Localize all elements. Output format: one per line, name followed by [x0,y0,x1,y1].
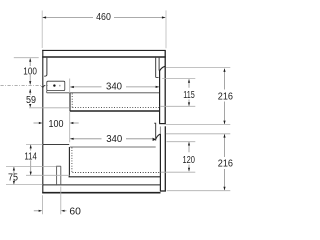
plumbing step cap [56,165,61,167]
drawer2 box bottom hidden (dotted) [73,172,161,174]
drawer1 box back wall hidden (dotted) [71,94,73,108]
dim 216 second [224,134,226,157]
bracket tick [59,85,61,87]
right ext line y190.7 [167,190,231,192]
svg-text:340: 340 [106,82,122,93]
dim 340 first [70,86,101,88]
svg-text:100: 100 [23,67,37,78]
right ext line y171.9 [161,171,196,173]
dim 114 vertical [30,145,32,151]
drawer2 box top line [70,146,156,148]
svg-text:115: 115 [183,90,195,101]
plumbing step vertical left [56,166,58,185]
ext line 60 left [41,195,43,214]
drawer1 box bottom hidden (dotted) [73,106,160,108]
drawer2 front bottom cap [160,190,166,192]
cabinet top panel top edge [42,49,166,51]
dim 120 [188,142,190,152]
drawer1 box back wall [69,93,71,111]
dim 100 horizontal (second) [34,122,39,124]
dim 100 vertical [29,58,31,66]
drawer1 front back face thin upper [158,58,160,71]
ext line 60 right [60,187,62,215]
cabinet left side panel [42,50,44,193]
svg-text:100: 100 [49,119,64,130]
dim 216 first [224,69,226,90]
dim 340 second [70,138,101,140]
right ext line y124.5 [166,124,230,126]
svg-text:120: 120 [182,155,195,166]
ext line 100 top-left [14,57,39,59]
plumbing step vertical right [60,166,62,185]
drawer2 box back wall [68,147,70,177]
cabinet bottom edge (thick) [42,192,160,194]
svg-text:75: 75 [8,172,18,183]
right ext line y67.5 [166,67,230,69]
bracket dot [53,84,55,86]
right ext line y141.7 [167,141,196,143]
centerline tick [42,85,45,88]
hanging rail bottom [43,143,69,145]
ext line 59 bottom [29,107,70,109]
drawer1 box top line [47,92,160,94]
wall bracket box [47,81,65,90]
drawer1 front front face [164,50,166,124]
drawer2 box back wall hidden (dotted) [71,148,73,173]
dim 115 [188,79,190,88]
drawer1 front back face [159,71,161,124]
extension line left of 460 (x=42.2) [41,11,43,49]
cabinet top panel bottom edge (thick) [42,56,166,58]
dim 59 vertical [29,89,31,95]
svg-text:60: 60 [69,207,81,218]
svg-text:460: 460 [96,12,111,23]
svg-text:340: 340 [106,134,122,145]
ext line 75 top [6,166,56,168]
dim 75 vertical [13,167,15,174]
right ext line y78.5 [162,78,195,80]
cabinet bottom panel top face [43,184,160,186]
svg-text:216: 216 [218,159,234,170]
ext line 114 bottom [26,174,70,176]
right ext line y106.3 [160,105,196,107]
svg-text:59: 59 [26,95,36,106]
ext line 75 bottom [6,184,43,186]
extension line right of 460 (x=166) [165,10,167,48]
drawer1 side wall bottom cap [156,76,159,78]
drawer1 curve [160,66,166,71]
drawer1 front bottom cap [159,123,166,125]
drawer2 front back face [159,134,161,191]
drawer2 bottom panel [69,176,161,178]
drawer2 front front face [164,126,166,191]
ext line 114 top [26,143,43,145]
dim 60 [34,210,39,212]
dimension 460 line [43,17,93,19]
right ext line y133.8 [166,133,230,135]
drawer1 side wall thin vertical [155,58,157,78]
bracket to rail connector [46,91,48,93]
dimension 460 arrows [43,16,47,18]
centerline (dash-dot) [1,84,49,86]
ext line x=69.7 [69,79,71,94]
drawer2 back face gray stub [159,127,161,135]
drawer2 curve [156,134,161,139]
svg-text:114: 114 [24,151,37,162]
hanging rail top (J shape) [44,58,47,76]
svg-text:216: 216 [218,91,234,102]
mid divider (thick) [70,110,160,112]
drawer2 side wall thin vertical [154,123,156,140]
